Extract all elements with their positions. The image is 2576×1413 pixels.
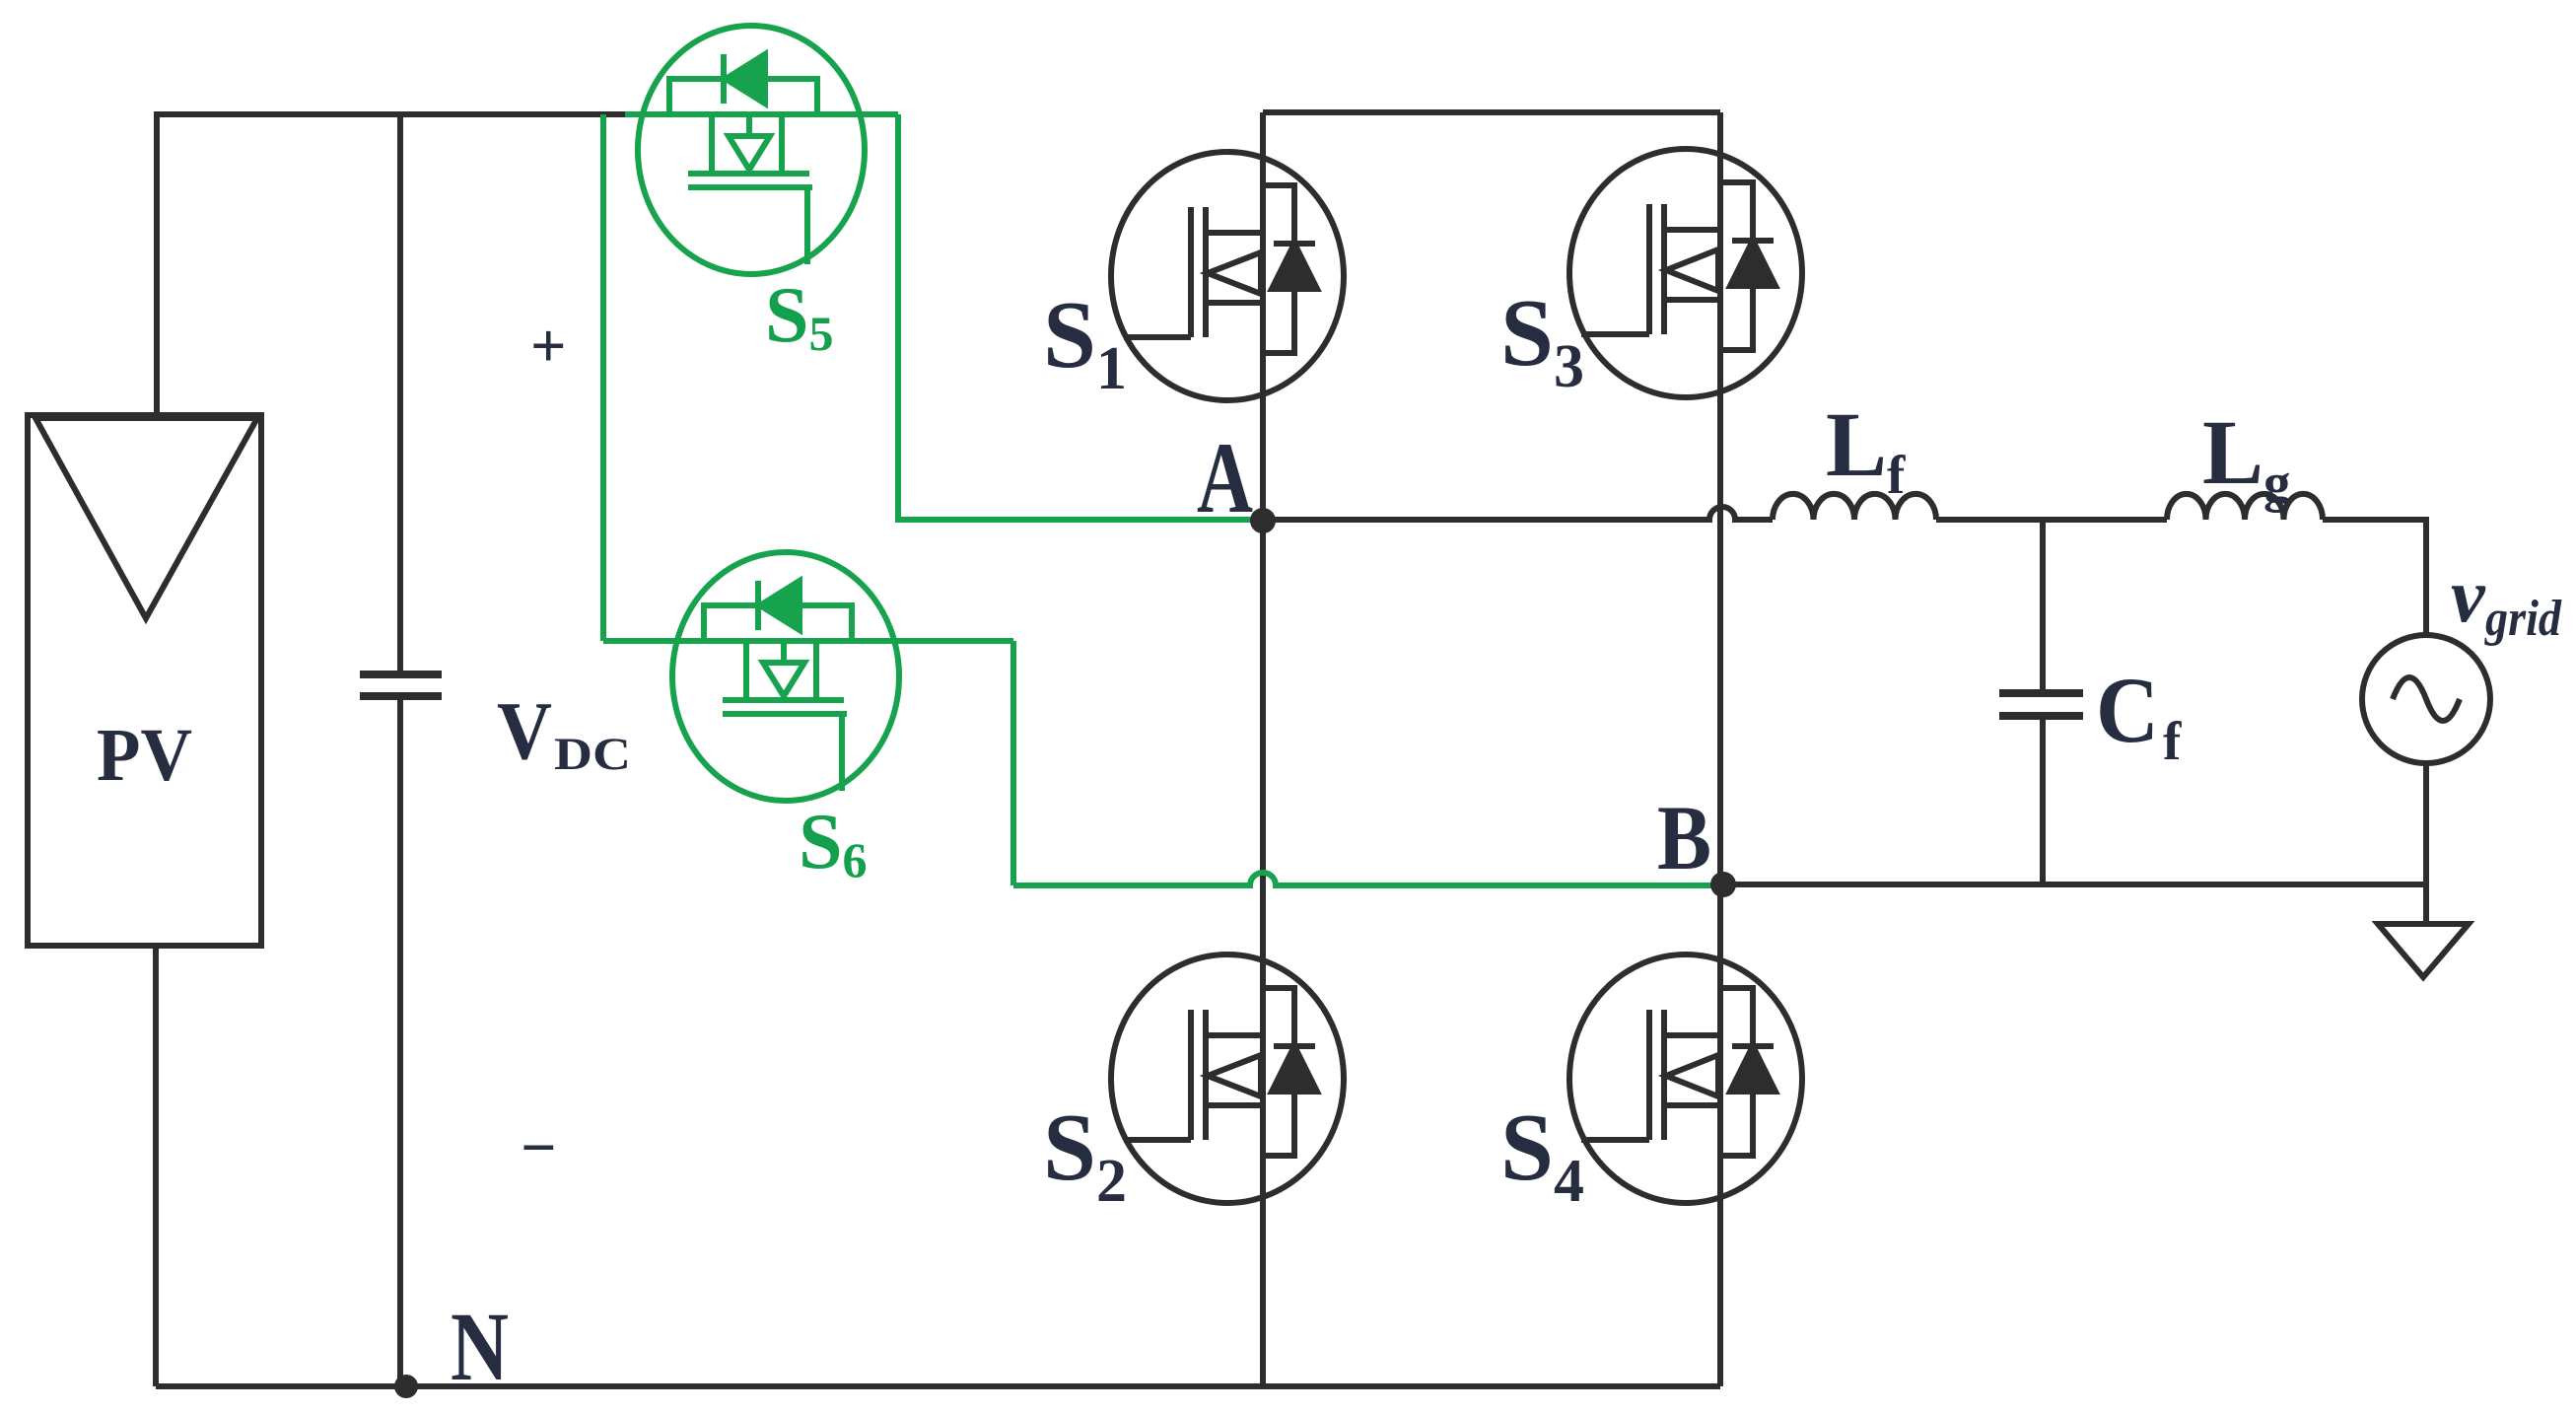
PV module bbox=[28, 415, 261, 946]
wire node A to Lf with crossover hop bbox=[1263, 507, 1773, 520]
wire S6 to node B with crossover hop (green) bbox=[1013, 873, 1723, 885]
capacitor DC-link top lead bbox=[397, 114, 403, 674]
wire top rail to S6 (green) bbox=[600, 114, 606, 641]
wire S6 output elbow (green) bbox=[1010, 641, 1016, 885]
wire S6 terminal segment (green) bbox=[603, 638, 1013, 644]
transistor S2 bbox=[1111, 954, 1344, 1203]
capacitor DC-link bottom lead bbox=[397, 696, 403, 1386]
svg-text:+: + bbox=[530, 311, 566, 381]
svg-text:grid: grid bbox=[2484, 591, 2562, 647]
node B bbox=[1710, 872, 1736, 897]
wire S5 output drop to node A (green) bbox=[898, 114, 1263, 520]
node A bbox=[1250, 508, 1276, 533]
ground bbox=[2378, 884, 2469, 977]
wire H-bridge left leg bbox=[1260, 112, 1266, 1386]
svg-text:B: B bbox=[1657, 788, 1711, 889]
inductor Lg bbox=[2167, 494, 2323, 520]
wire bottom rail bbox=[156, 1383, 1720, 1389]
svg-text:A: A bbox=[1197, 422, 1253, 534]
svg-text:f: f bbox=[2163, 711, 2182, 771]
transistor S3 bbox=[1569, 149, 1802, 397]
AC source vgrid bbox=[2362, 635, 2490, 763]
wire node B rail bbox=[1723, 882, 2426, 887]
svg-text:V: V bbox=[497, 685, 552, 777]
inductor Lf bbox=[1773, 494, 1936, 520]
svg-text:N: N bbox=[451, 1292, 509, 1401]
wire Lf to Lg bbox=[1936, 517, 2167, 523]
capacitor DC-link bbox=[360, 674, 442, 696]
transistor S4 bbox=[1569, 954, 1802, 1203]
transistor S1 bbox=[1111, 152, 1344, 400]
wire PV top drop bbox=[154, 111, 160, 415]
wire H-bridge right leg bbox=[1717, 112, 1723, 1386]
transistor S5 bbox=[638, 26, 865, 274]
node N bbox=[394, 1375, 418, 1398]
wire S5 terminal segment (green) on top rail bbox=[625, 111, 898, 117]
svg-text:v: v bbox=[2451, 552, 2486, 638]
svg-text:C: C bbox=[2096, 658, 2159, 762]
wire PV bottom drop bbox=[153, 946, 159, 1386]
svg-text:DC: DC bbox=[554, 729, 631, 780]
wire vgrid bottom lead bbox=[2423, 763, 2429, 884]
transistor S6 bbox=[672, 552, 899, 801]
svg-text:−: − bbox=[521, 1112, 556, 1182]
wire H-bridge top rail bbox=[1263, 109, 1720, 115]
svg-text:PV: PV bbox=[97, 714, 192, 797]
capacitor Cf bbox=[2040, 520, 2046, 693]
wire top rail from PV+ to S5 bbox=[157, 111, 625, 117]
wire Lg to vgrid bbox=[2323, 520, 2426, 635]
